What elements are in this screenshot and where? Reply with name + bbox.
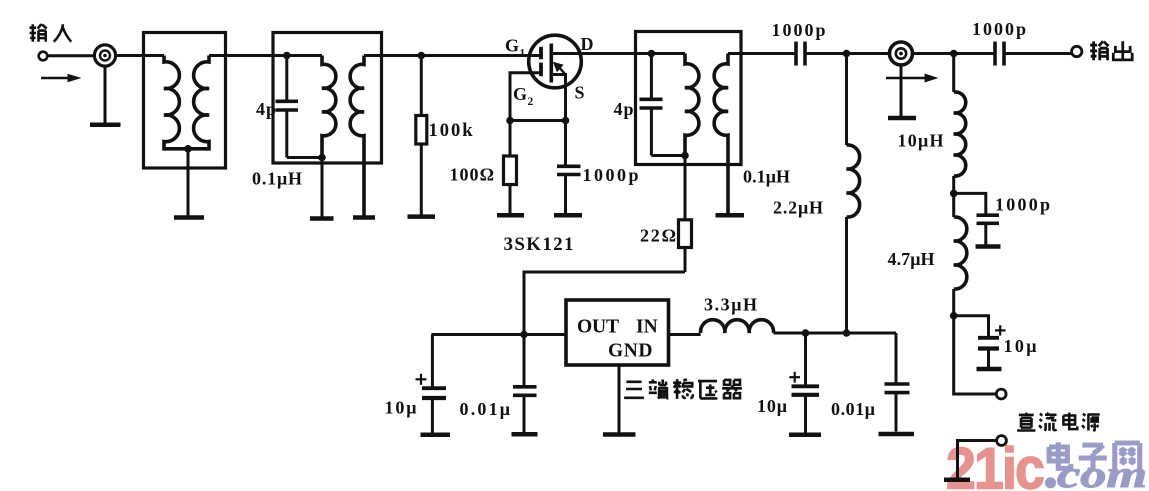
T3 secondary winding	[714, 54, 728, 214]
inductor L1 2.2uH	[847, 54, 860, 334]
wire U2 GND to ground	[618, 365, 621, 433]
svg-text:3.3μH: 3.3μH	[704, 295, 757, 315]
wire J1 ground	[104, 66, 107, 123]
T2 secondary winding	[350, 56, 364, 216]
wire T1 tap to ground	[187, 149, 190, 216]
regulator U2 box	[566, 300, 669, 365]
label 输入 (input)	[30, 24, 72, 42]
ground C7	[977, 367, 1002, 372]
svg-text:10μ: 10μ	[1004, 336, 1037, 356]
signal arrow	[41, 74, 82, 82]
wire J2 ground	[900, 65, 903, 117]
ground T2 secondary	[353, 215, 375, 220]
resistor R1 100k	[416, 56, 427, 215]
node C	[648, 50, 656, 58]
T3 primary winding	[685, 54, 699, 156]
wire R3 to regulator OUT node	[524, 272, 685, 335]
capacitor C9 0.01u	[513, 335, 537, 433]
svg-text:22Ω: 22Ω	[640, 226, 676, 246]
ground C6	[976, 244, 1001, 249]
capacitor C10 10u electrolytic	[792, 333, 820, 433]
ground R1	[408, 214, 436, 219]
ground T2 primary	[310, 216, 334, 221]
wire T3 to C4	[728, 52, 796, 55]
node D2	[843, 50, 851, 58]
svg-text:0.01μ: 0.01μ	[831, 399, 875, 419]
capacitor C11 0.01u	[885, 333, 910, 432]
node F	[950, 190, 958, 198]
output terminal	[1072, 46, 1082, 56]
svg-text:IN: IN	[636, 317, 658, 338]
svg-text:1000p: 1000p	[772, 20, 826, 40]
node J	[843, 329, 851, 337]
wire C4 to J2	[805, 52, 891, 55]
svg-text:4p: 4p	[614, 99, 634, 119]
ground R2	[497, 213, 524, 218]
svg-text:0.01μ: 0.01μ	[460, 399, 511, 419]
node A	[283, 52, 291, 60]
node T1 tap	[184, 145, 192, 153]
ground C8	[421, 433, 451, 438]
signal arrow out	[886, 74, 939, 83]
wire C5 to output	[1004, 52, 1072, 55]
svg-text:10μH: 10μH	[898, 131, 944, 151]
svg-text:10μ: 10μ	[385, 398, 417, 418]
transformer T2 box	[273, 33, 382, 164]
C8 plus sign	[416, 374, 427, 385]
DC minus terminal	[997, 436, 1007, 446]
capacitor C2 1000p source bypass	[557, 121, 581, 214]
wire G2-S rail	[510, 119, 566, 122]
inductor L4 3.3uH	[701, 320, 774, 333]
svg-text:4p: 4p	[256, 99, 276, 119]
svg-text:2.2μH: 2.2μH	[773, 198, 823, 218]
ground DC	[944, 478, 970, 483]
T2 primary winding	[322, 56, 336, 158]
svg-text:0.1μH: 0.1μH	[743, 167, 790, 187]
svg-text:21ic: 21ic	[946, 437, 1044, 491]
ground T1	[174, 215, 204, 220]
resistor R3 22ohm	[679, 156, 692, 273]
label 输出 (output)	[1090, 41, 1132, 60]
coax connector J1	[94, 45, 115, 66]
input terminal	[39, 52, 48, 61]
svg-text:100k: 100k	[429, 121, 474, 141]
resistor R2 100ohm	[504, 121, 517, 214]
T1 secondary winding	[190, 56, 210, 149]
label 三端稳压器 (3-terminal regulator)	[624, 379, 742, 399]
ground U2	[603, 432, 636, 437]
svg-text:10μ: 10μ	[757, 396, 787, 416]
svg-text:0.1μH: 0.1μH	[252, 169, 302, 189]
node G2	[506, 117, 514, 125]
node G	[950, 312, 958, 320]
node T2 bottom	[318, 154, 326, 162]
wire T1 to T2	[209, 54, 322, 57]
wire DC minus to ground	[958, 441, 997, 478]
capacitor C7 10u electrolytic	[954, 316, 999, 367]
svg-text:S: S	[575, 83, 585, 103]
svg-text:1000p: 1000p	[972, 19, 1026, 39]
wire L4 to C11	[774, 332, 897, 335]
svg-text:com: com	[1057, 454, 1147, 491]
wire J2 to C5	[912, 52, 995, 55]
watermark dot	[1045, 477, 1056, 488]
node T3 bottom	[681, 152, 689, 160]
ground C9	[512, 432, 538, 437]
C10 plus sign	[789, 372, 800, 383]
coax connector J2	[890, 42, 913, 65]
svg-text:D: D	[581, 34, 594, 54]
svg-text:1000p: 1000p	[583, 165, 639, 185]
svg-text:4.7μH: 4.7μH	[888, 249, 935, 269]
inductor L2 10uH	[954, 54, 966, 194]
inductor L3 4.7uH	[954, 193, 967, 315]
svg-text:GND: GND	[608, 341, 653, 362]
ground C11	[879, 432, 915, 437]
wire J1 to T1	[116, 54, 164, 57]
node H	[520, 331, 528, 339]
capacitor C4 1000p coupling	[796, 42, 805, 66]
ground T3 secondary	[716, 213, 745, 218]
svg-text:1: 1	[520, 48, 526, 60]
wire OUT rail	[431, 333, 566, 336]
node B	[418, 52, 426, 60]
label 直流电源 (DC power)	[1017, 413, 1100, 431]
svg-text:G: G	[513, 84, 527, 104]
svg-text:2: 2	[528, 96, 534, 108]
transformer T1 box	[144, 33, 226, 169]
wire U2 IN to L4	[669, 333, 701, 336]
capacitor C8 10u electrolytic	[422, 335, 446, 433]
wire to DC plus terminal	[954, 316, 997, 394]
wire input to J1	[48, 54, 95, 57]
wire T2 to gate G1	[364, 54, 540, 57]
DC plus terminal	[996, 389, 1006, 399]
capacitor C6 1000p	[954, 193, 999, 244]
capacitor C3 4p	[640, 54, 686, 156]
capacitor C5 1000p coupling	[995, 42, 1004, 66]
node S	[562, 117, 570, 125]
watermark 电子网	[1049, 442, 1140, 471]
transformer T3 box	[636, 32, 742, 165]
node E	[950, 50, 958, 58]
ground C2	[554, 213, 582, 218]
node I	[802, 329, 810, 337]
op-amp U1 dual-gate MOSFET 3SK121	[510, 35, 581, 120]
svg-text:100Ω: 100Ω	[450, 165, 495, 185]
svg-text:OUT: OUT	[577, 317, 619, 338]
ground J1	[90, 123, 121, 128]
ground C10	[789, 433, 821, 438]
C7 plus sign	[995, 325, 1006, 335]
T1 primary winding	[164, 56, 187, 149]
svg-text:1000p: 1000p	[995, 195, 1050, 215]
wire T2 primary to ground	[321, 158, 324, 217]
wire D to T3	[552, 52, 685, 55]
svg-text:G: G	[505, 36, 519, 56]
capacitor C1 4p	[276, 56, 323, 158]
ground J2	[888, 116, 916, 121]
